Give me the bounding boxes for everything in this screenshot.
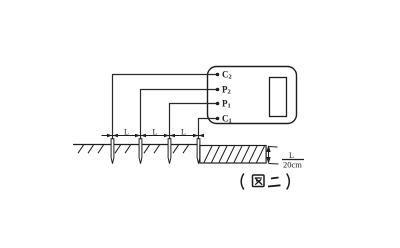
svg-text:L: L (124, 128, 129, 137)
ground hatching (left earth) (78, 144, 189, 153)
electrode rod 2 (139, 139, 142, 164)
svg-text:P1: P1 (222, 99, 231, 110)
buried earth band (hatched) (200, 146, 266, 164)
band hatching (204, 146, 265, 163)
svg-text:C1: C1 (222, 114, 232, 125)
ground surface line (73, 144, 200, 146)
svg-text:20cm: 20cm (283, 160, 302, 170)
terminal P1 (dot) (216, 102, 220, 106)
open paren (241, 174, 244, 190)
electrode rod 3 (168, 139, 171, 164)
electrode rod 4 (197, 139, 200, 164)
depth label L / 20cm (282, 151, 304, 170)
svg-text:C2: C2 (222, 70, 232, 81)
terminal C2 (dot) (216, 73, 220, 77)
wire P1 to electrode 3 (170, 104, 218, 141)
char er (two) (268, 178, 281, 187)
spacing dimension line (102, 135, 202, 137)
dimension arrowheads at electrode 2 (135, 134, 146, 138)
dimension arrowheads at electrode 3 (164, 134, 175, 138)
char tu (boxed) (253, 175, 265, 187)
terminal C1 (dot) (216, 117, 220, 121)
caption (图二) (241, 174, 289, 190)
electrode rod 1 (111, 139, 114, 164)
svg-text:L: L (153, 128, 158, 137)
close paren (287, 174, 290, 190)
wire P2 to electrode 2 (141, 90, 218, 141)
meter display window (270, 78, 287, 117)
wire C1 to electrode 4 (199, 119, 218, 141)
dimension arrowheads at electrode 4 (193, 134, 204, 138)
dimension arrowheads at electrode 1 (107, 134, 118, 138)
terminal P2 (dot) (216, 88, 220, 92)
wire C2 to electrode 1 (113, 75, 218, 141)
svg-text:L: L (181, 128, 186, 137)
earth tester U1 (instrument box) (208, 67, 297, 124)
svg-text:P2: P2 (222, 85, 231, 96)
depth dimension (20cm) (266, 145, 278, 164)
